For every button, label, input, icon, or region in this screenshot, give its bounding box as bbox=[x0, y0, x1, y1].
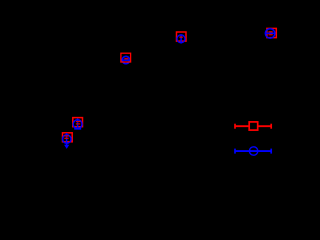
resistor R2 value mark bbox=[179, 36, 182, 38]
legend entry: resistor (red line with box) bbox=[235, 122, 272, 130]
resistor R5 (edge 5 midpoint, box symbol) bbox=[63, 133, 73, 142]
resistor R3 plate marks bbox=[269, 32, 273, 35]
current source I2 (edge 5 midpoint, circle symbol with arrow) bbox=[63, 133, 72, 149]
resistor R1 (edge 1 midpoint, box symbol) bbox=[121, 53, 131, 62]
voltage source V2 (edge 2 midpoint, circle symbol) bbox=[177, 35, 185, 44]
current source I1 (edge 4 midpoint, circle symbol with arrow) bbox=[73, 118, 82, 128]
resistor R5 plate marks bbox=[64, 136, 69, 138]
legend entry: source (blue line with circle) bbox=[235, 147, 272, 155]
resistor R3 (edge 3 midpoint, box symbol) bbox=[267, 28, 276, 37]
resistor R2 (edge 2 midpoint, box symbol) bbox=[177, 32, 187, 41]
resistor R4 (edge 4 midpoint, box symbol) bbox=[73, 118, 83, 127]
voltage source V3 (edge 3 midpoint, circle symbol) bbox=[265, 29, 276, 38]
voltage source V1 (edge 1 midpoint, circle symbol) bbox=[122, 56, 130, 63]
resistor R4 plate marks bbox=[76, 122, 81, 124]
